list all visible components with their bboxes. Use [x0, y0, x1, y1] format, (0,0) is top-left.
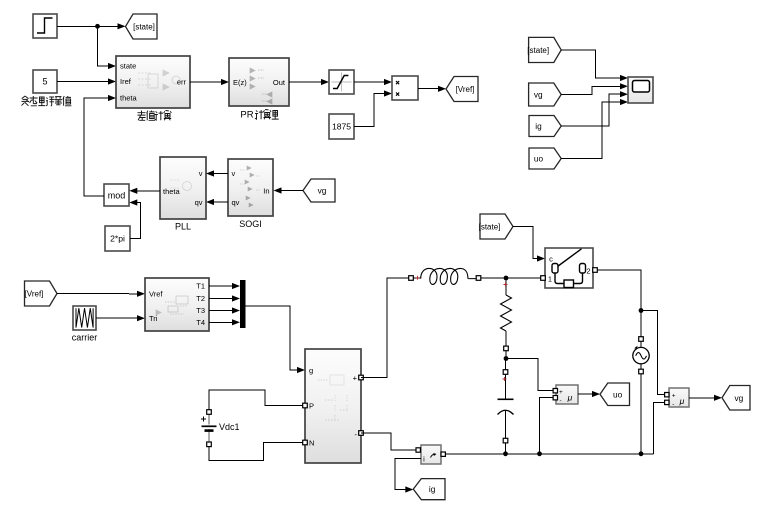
scope block [628, 77, 653, 103]
wire mod output up to theta [84, 95, 116, 196]
AC voltage source [633, 341, 649, 369]
wire vg to SOGI In [274, 187, 304, 193]
svg-text:v: v [232, 169, 236, 178]
wire bridge - to current sensor [361, 433, 416, 450]
from tag uo top-right [529, 148, 561, 169]
port square Vdc1 + [207, 410, 212, 415]
junction switch/vg-meas [639, 308, 644, 313]
wire capacitor to ground bus [505, 443, 507, 454]
port square bridge N [303, 440, 308, 445]
svg-text:vg: vg [318, 186, 327, 196]
port square switch 1 [541, 276, 546, 281]
wire vg-meas minus to bus [654, 402, 667, 453]
svg-text:[Vref]: [Vref] [456, 85, 475, 94]
caption PLL [175, 222, 191, 232]
svg-text:SOGI: SOGI [239, 219, 262, 229]
svg-text:ig: ig [535, 121, 542, 131]
wire resistor to junction [505, 351, 507, 359]
svg-text:[state]: [state] [133, 23, 155, 32]
ground bus wire [445, 453, 653, 455]
wire SOGI qv to PLL qv [206, 199, 228, 205]
svg-text:PLL: PLL [175, 222, 191, 232]
svg-text:1875: 1875 [332, 122, 351, 132]
voltage measurement vg [669, 388, 689, 408]
svg-text:Iref: Iref [120, 77, 132, 86]
port square capacitor top [503, 370, 508, 375]
goto tag ig [413, 479, 445, 500]
svg-text:Vdc1: Vdc1 [219, 422, 240, 432]
port square Vdc1 - [207, 442, 212, 447]
wire saturation to product [354, 79, 392, 85]
wire T2 to mux [209, 295, 240, 301]
from tag [Vref] bottom-left [25, 281, 58, 306]
svg-text:err: err [177, 78, 187, 87]
svg-text:uo: uo [613, 389, 623, 399]
wire [Vref] to Vref input [57, 291, 145, 297]
port square inductor left [409, 276, 414, 281]
port square vg-meas minus [665, 400, 669, 404]
from tag ig top-right [529, 116, 561, 137]
caption carrier [72, 333, 98, 343]
subsystem IGBT bridge [305, 349, 361, 463]
wire bridge + up to inductor [361, 278, 409, 378]
svg-text:+: + [559, 389, 563, 396]
wire vg-meas to goto vg [689, 395, 722, 401]
svg-text:v: v [199, 169, 203, 178]
subsystem PR控制器 [229, 58, 289, 106]
svg-text:T2: T2 [196, 294, 205, 303]
from tag [state] top-right [527, 37, 561, 62]
port square switch 2 [593, 268, 598, 273]
svg-text:theta: theta [120, 94, 138, 103]
svg-text:P: P [309, 402, 314, 411]
goto tag [Vref] [446, 77, 478, 102]
svg-text:2*pi: 2*pi [110, 234, 125, 244]
wire vg to scope in2 [561, 83, 628, 94]
wire SOGI v to PLL v [206, 170, 228, 176]
wire PR Out to saturation [289, 79, 329, 85]
port square ac source bottom [639, 369, 644, 374]
junction uo-meas on bus [537, 451, 542, 456]
wire product to goto [Vref] [418, 86, 446, 92]
capacitor C [498, 359, 514, 439]
breaker switch block [545, 248, 593, 288]
wire T4 to mux [209, 319, 240, 325]
port square bridge + out [359, 375, 364, 380]
svg-text:mod: mod [108, 191, 126, 201]
node junction resistor/capacitor [504, 356, 509, 361]
svg-text:PR: PR [240, 110, 253, 121]
svg-text:-: - [672, 401, 674, 408]
port square bridge - out [359, 431, 364, 436]
svg-text:1: 1 [548, 275, 552, 284]
svg-text:[Vref]: [Vref] [25, 290, 44, 299]
junction capacitor on bus [503, 451, 508, 456]
DC source Vdc1 [201, 414, 240, 442]
wire [state] to scope in1 [561, 50, 628, 81]
svg-text:Out: Out [273, 78, 286, 87]
label 参考电流幅值 [22, 96, 72, 106]
wire junction to uo-meas plus [506, 359, 553, 391]
wire constant 5 to Iref [57, 78, 116, 84]
constant 5 [33, 70, 57, 93]
from tag vg middle [303, 179, 335, 202]
junction ac source on bus [639, 451, 644, 456]
goto tag uo [600, 383, 630, 406]
wire uo to scope in4 [561, 99, 628, 159]
product block [392, 76, 418, 100]
svg-text:vg: vg [534, 90, 543, 100]
wire inductor to switch port1 [481, 277, 541, 279]
port square uo-meas minus [553, 396, 557, 400]
svg-text:ig: ig [429, 484, 436, 494]
wire junction to vg-meas plus [641, 311, 666, 395]
subsystem PLL [160, 157, 206, 219]
wire Vdc1 plus to bridge P [209, 390, 303, 410]
svg-text:c: c [549, 255, 553, 264]
svg-text:qv: qv [195, 198, 203, 207]
port square current sensor right [441, 452, 445, 456]
wire carrier to Tri input [96, 315, 145, 321]
wire ig to scope in3 [561, 91, 628, 126]
port square inductor right [476, 276, 481, 281]
port square uo-meas plus [553, 389, 557, 393]
wire current sensor signal to goto ig [395, 459, 421, 493]
svg-text:+: + [672, 393, 676, 400]
caption SOGI [239, 219, 262, 229]
wire uo-meas minus to bus [540, 398, 554, 454]
step source block [33, 14, 57, 38]
svg-text:T1: T1 [196, 282, 205, 291]
wire 2*pi to mod [129, 199, 140, 238]
svg-text:qv: qv [232, 198, 240, 207]
saturation block [329, 70, 354, 94]
svg-text:5: 5 [42, 77, 47, 87]
mod block [104, 184, 129, 206]
caption PR控制器 [240, 110, 278, 121]
constant 1875 [329, 114, 354, 139]
wire 1875 to product [354, 90, 392, 126]
wire T3 to mux [209, 307, 240, 313]
subsystem 差值计算 [116, 56, 190, 108]
svg-text:carrier: carrier [72, 333, 98, 343]
svg-text:[state]: [state] [479, 223, 501, 232]
subsystem PWM generator [145, 278, 209, 331]
wire step output to goto [state] [57, 23, 126, 29]
svg-text:In: In [263, 187, 269, 196]
wire err to E(z) [190, 79, 229, 85]
constant 2*pi [105, 226, 130, 251]
wire [state] to switch c [513, 227, 545, 262]
port square bridge P [303, 403, 308, 408]
svg-text:T4: T4 [196, 318, 205, 327]
current measurement block i [421, 445, 441, 464]
wire T1 to mux [209, 283, 240, 289]
inductor L [413, 268, 476, 284]
svg-text:Tri: Tri [149, 314, 158, 323]
resistor R [501, 280, 512, 346]
svg-text:μ: μ [567, 393, 573, 403]
voltage measurement uo [556, 385, 578, 405]
wire uo-meas to goto uo [578, 391, 600, 397]
svg-text:E(z): E(z) [233, 78, 247, 87]
node junction on step output [95, 24, 100, 29]
port square ac source top [639, 337, 644, 342]
caption 差值计算 [138, 111, 172, 121]
svg-text:μ: μ [679, 396, 685, 406]
goto tag [state] top-left [126, 14, 158, 39]
svg-text:g: g [309, 366, 313, 375]
carrier triangle-wave source [73, 306, 96, 330]
svg-text:uo: uo [534, 154, 544, 164]
node junction at resistor top [504, 276, 509, 281]
from tag [state] near switch [479, 214, 513, 239]
svg-text:+: + [353, 374, 358, 383]
port square capacitor bottom [503, 438, 508, 443]
mux block [240, 280, 246, 328]
goto tag vg bottom [722, 386, 750, 411]
wire junction down to state input [98, 26, 117, 69]
svg-text:[state]: [state] [527, 46, 549, 55]
subsystem SOGI [228, 159, 273, 216]
svg-text:vg: vg [735, 393, 744, 403]
svg-text:Vref: Vref [149, 290, 163, 299]
from tag vg top-right [529, 83, 562, 106]
svg-text:state: state [120, 62, 136, 71]
svg-text:N: N [309, 439, 314, 448]
svg-text:-: - [560, 398, 562, 405]
svg-text:2: 2 [586, 267, 590, 276]
svg-text:T3: T3 [196, 306, 205, 315]
wire PLL theta to mod [129, 188, 160, 194]
port square resistor bottom [504, 346, 509, 351]
wire switch 2 to ac source [597, 270, 641, 337]
wire Vdc1 minus to bridge N [209, 443, 303, 461]
wire ac source to bus [640, 374, 642, 454]
wire mux to g input [246, 306, 306, 373]
port square vg-meas plus [665, 393, 669, 397]
port square current sensor left [416, 448, 420, 452]
